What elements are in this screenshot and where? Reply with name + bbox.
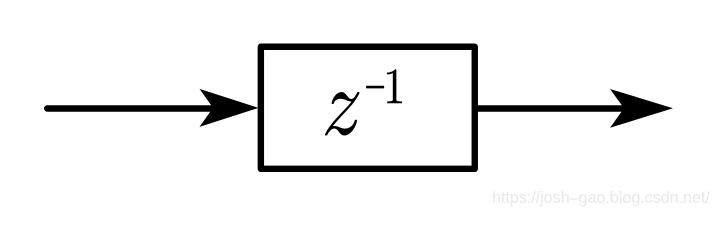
- wire: output signal line: [475, 105, 627, 111]
- delay block box: [261, 47, 475, 169]
- label minus of z^-1 exponent: [366, 86, 384, 89]
- label 1 of z^-1 exponent: [387, 69, 402, 103]
- arrowhead: input arrow into delay block: [200, 89, 259, 127]
- watermark: [492, 190, 710, 206]
- label z of z^-1: [325, 92, 360, 136]
- arrowhead: output arrow: [610, 89, 673, 128]
- wire: input signal line: [47, 105, 215, 111]
